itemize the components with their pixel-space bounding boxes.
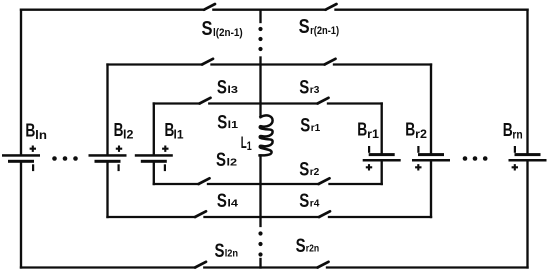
svg-text:l1: l1 [228, 119, 239, 131]
battery Bl1 short plate [141, 160, 167, 163]
switch Sl(2n-1) lever [204, 4, 215, 10]
svg-text:l2: l2 [123, 130, 133, 142]
battery Bl2 minus tick [118, 164, 120, 171]
switch Sl1 lever [200, 98, 211, 104]
battery Br2 minus tick [417, 146, 419, 153]
switch Sr2 lever [319, 178, 330, 184]
battery Bln plus sign [30, 146, 36, 152]
svg-text:S: S [299, 159, 309, 180]
svg-text:S: S [217, 77, 227, 98]
battery Bln long plate [2, 154, 40, 157]
wire W1 middle segment [213, 9, 325, 11]
svg-text:l3: l3 [227, 84, 238, 96]
battery Bln minus tick [32, 164, 34, 171]
svg-text:S: S [202, 18, 213, 40]
svg-text:B: B [405, 119, 415, 139]
svg-text:r2: r2 [310, 166, 320, 178]
switch Sl2 lever [199, 178, 210, 184]
wire W6 middle segment [204, 266, 317, 268]
wire W6 outer bottom right segment [327, 266, 528, 268]
svg-text:S: S [299, 16, 310, 38]
wire W4 middle segment [208, 183, 319, 185]
wire W3 middle segment [209, 102, 317, 104]
svg-text:B: B [503, 120, 513, 140]
svg-text:ln: ln [35, 130, 47, 142]
svg-text:r(2n-1): r(2n-1) [310, 25, 339, 37]
battery Bln short plate [8, 160, 34, 163]
wire W6 outer bottom left segment [21, 266, 195, 268]
wire W1 outer top right segment [336, 9, 528, 11]
wire Bl1 vertical lower [153, 163, 155, 184]
dots between Br2 and Brn [463, 156, 468, 161]
battery Br1 minus tick [368, 146, 370, 153]
battery Bl1 minus tick [164, 164, 166, 171]
svg-text:r4: r4 [310, 198, 320, 210]
svg-text:S: S [215, 241, 225, 262]
wire center bottom stub [259, 259, 261, 268]
battery Brn minus tick [514, 146, 516, 153]
battery Brn short plate [515, 153, 541, 156]
wire W3 inner top left segment [154, 102, 200, 104]
wire Br2 vertical lower [430, 162, 432, 218]
battery Bl1 plus sign [162, 146, 168, 152]
switch Sl2n lever [195, 262, 206, 268]
battery Brn plus sign [512, 164, 518, 170]
battery Br1 short plate [369, 153, 395, 156]
svg-text:B: B [25, 121, 35, 141]
dots center column top [258, 27, 262, 31]
wire W3 inner top right segment [328, 102, 382, 104]
svg-text:l2n: l2n [225, 248, 238, 259]
wire Bl1 vertical upper [153, 104, 155, 155]
wire W5 middle segment [205, 216, 320, 218]
wire Br2 vertical upper [430, 65, 432, 154]
battery Bl2 plus sign [116, 146, 122, 152]
wire Bl2 vertical upper [106, 65, 108, 155]
svg-text:rn: rn [512, 130, 522, 142]
svg-text:S: S [300, 115, 310, 136]
svg-text:r3: r3 [310, 84, 320, 96]
wire W4 inner bottom left segment [154, 183, 199, 185]
svg-text:1: 1 [247, 139, 252, 153]
wire W4 inner bottom right segment [330, 183, 382, 185]
switch Sr4 lever [319, 211, 330, 217]
wire W2 right segment [334, 63, 431, 65]
battery Br1 plus sign [366, 164, 372, 170]
wire right outer vertical upper [526, 10, 528, 153]
dots center column bottom [258, 231, 262, 235]
battery Br2 plus sign [415, 164, 421, 170]
wire W1 outer top left segment [21, 9, 204, 11]
battery Bl2 long plate [89, 154, 127, 157]
wire center top stub [259, 10, 261, 22]
svg-text:S: S [299, 191, 309, 212]
battery Br2 long plate [412, 159, 450, 162]
inductor L1 coil [260, 115, 273, 155]
wire W2 middle segment [212, 63, 325, 65]
svg-text:S: S [296, 236, 306, 257]
wire center segment through W2 W3 to inductor [259, 58, 261, 118]
wire W5 right segment [329, 216, 431, 218]
svg-text:l2: l2 [227, 157, 238, 169]
svg-text:S: S [216, 150, 226, 171]
wire Bl2 vertical lower [106, 163, 108, 217]
wire W2 top left segment [108, 63, 203, 65]
svg-text:r2: r2 [415, 129, 427, 141]
switch Sr1 lever [318, 98, 329, 104]
battery Bl2 short plate [95, 160, 121, 163]
battery Br2 short plate [418, 153, 444, 156]
svg-text:r1: r1 [367, 129, 379, 141]
svg-text:S: S [299, 77, 309, 98]
svg-text:B: B [114, 120, 124, 140]
wire left outer vertical lower [20, 163, 22, 268]
switch Sl4 lever [195, 211, 206, 217]
wire center segment below inductor through W4 W5 [259, 155, 261, 226]
switch Sl3 lever [202, 59, 213, 65]
svg-text:l4: l4 [227, 198, 238, 210]
switch Sr2n lever [318, 262, 329, 268]
wire right outer vertical lower [526, 162, 528, 268]
wire W5 bottom left segment [108, 216, 196, 218]
battery Brn long plate [509, 159, 547, 162]
svg-text:l1: l1 [174, 130, 185, 142]
wire Br1 vertical upper [381, 104, 383, 154]
svg-text:r1: r1 [311, 122, 321, 134]
svg-text:l(2n-1): l(2n-1) [213, 27, 243, 39]
wire left outer vertical upper [20, 10, 22, 155]
battery Bl1 long plate [135, 154, 173, 157]
svg-text:S: S [217, 112, 227, 133]
svg-text:B: B [357, 119, 367, 139]
switch Sr(2n-1) lever [326, 4, 337, 10]
battery Br1 long plate [363, 159, 401, 162]
switch Sr3 lever [325, 59, 336, 65]
dots between Bln and Bl2 [52, 156, 57, 161]
wire Br1 vertical lower [381, 162, 383, 185]
svg-text:S: S [217, 191, 227, 212]
svg-text:r2n: r2n [306, 243, 319, 254]
